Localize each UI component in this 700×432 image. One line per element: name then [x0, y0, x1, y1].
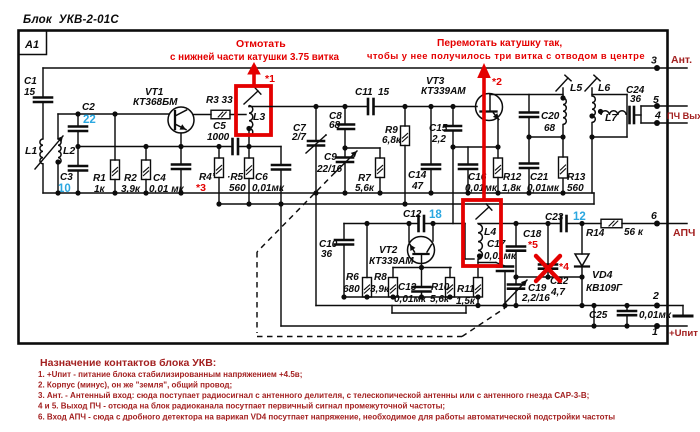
wire: L6 coupling loop — [592, 94, 627, 96]
wire: emitter line y=146.5 from C2 to C6 column — [78, 146, 232, 148]
svg-text:С5: С5 — [213, 121, 226, 132]
wire: VT3 collector to IF tank — [490, 94, 563, 96]
wire: rail end link — [593, 193, 595, 204]
svg-text:С17: С17 — [487, 239, 506, 250]
wire: L3 top to mixer line y=106 — [248, 105, 250, 108]
svg-text:КТ339АМ: КТ339АМ — [421, 86, 466, 97]
wire: y=277 link — [516, 276, 582, 278]
svg-text:22: 22 — [83, 114, 96, 126]
capacitor C12 (series) — [417, 216, 420, 231]
svg-text:R1: R1 — [93, 173, 106, 184]
svg-text:5,6к: 5,6к — [430, 294, 450, 305]
resistor R3 (series) — [211, 110, 230, 119]
node: R2 top junction — [143, 144, 148, 149]
node: R12 ground junction — [495, 190, 500, 195]
wire: to terminal 4 — [641, 122, 687, 124]
svg-text:L3: L3 — [253, 111, 265, 123]
svg-text:2: 2 — [652, 290, 659, 302]
variable inductor arrow across L1/L2 — [35, 136, 63, 169]
wire: C1 top lead from antenna wire — [42, 68, 44, 98]
node: C25 top junction — [624, 303, 629, 308]
node: VT1 emitter junction — [178, 144, 183, 149]
wire: VT2 base lead down — [421, 254, 423, 268]
svg-text:4 и 5. Выход ПЧ - отсюда на бл: 4 и 5. Выход ПЧ - отсюда на блок радиока… — [38, 402, 445, 411]
svg-text:R8: R8 — [374, 272, 387, 283]
wire: C1 bottom to L1 — [42, 102, 44, 139]
node: C18 branch on osc line — [513, 221, 518, 226]
svg-text:68: 68 — [544, 123, 556, 134]
svg-text:С3: С3 — [60, 172, 73, 183]
svg-text:36: 36 — [630, 94, 642, 105]
node: C19 junction on y=277 wire — [513, 274, 518, 279]
resistor R5 — [248, 147, 250, 159]
svg-text:Блок УКВ-2-01С: Блок УКВ-2-01С — [23, 14, 119, 26]
wire: osc line detour down to L4 bottom — [464, 224, 466, 260]
wire: L4 bottom / R11 column — [477, 259, 479, 278]
node: L6 tap dot — [589, 113, 594, 118]
node: C9 ground junction — [342, 190, 347, 195]
node: C15 column junction — [450, 144, 455, 149]
variable capacitor C9 (tuning) — [337, 156, 353, 159]
node: C20 bottom junction — [526, 134, 531, 139]
wire: R3 to L3 — [230, 114, 246, 116]
node: C8 branch — [342, 104, 347, 109]
wire: +Uпит rail y=326 to terminal 1 — [281, 325, 687, 327]
node: R4 +U junction — [216, 201, 221, 206]
node: R9 to +U rail junction — [402, 201, 407, 206]
svg-text:*3: *3 — [196, 182, 206, 194]
wire: mixer line y=106 from L3 to C11 — [249, 106, 368, 108]
svg-text:КТ368БМ: КТ368БМ — [133, 97, 178, 108]
node: terminal 6 dot — [654, 221, 660, 227]
svg-text:АПЧ: АПЧ — [673, 227, 695, 239]
wire: feed link at x=594 between rails — [593, 306, 595, 327]
varicap diode VD4 — [581, 224, 583, 255]
svg-text:47: 47 — [411, 181, 424, 192]
node: C25 bottom junction — [624, 323, 629, 328]
svg-text:3,9к: 3,9к — [370, 284, 390, 295]
node: C7 ground-bus junction — [313, 190, 318, 195]
capacitor C5 1000 (series) — [231, 139, 234, 154]
svg-text:С20: С20 — [541, 111, 560, 122]
wire: L2 top to VT1 base (y=114) — [57, 114, 59, 139]
svg-text:*4: *4 — [559, 261, 569, 273]
wire: L3 bottom lead to emitter line — [248, 131, 250, 147]
node: R5 +U junction — [246, 201, 251, 206]
transistor VT2 (rotated, base bar at bottom) — [408, 237, 435, 264]
capacitor C13 — [421, 268, 423, 288]
wire: base bias line y=267.5 — [393, 267, 451, 269]
node: L5 bottom junction — [560, 134, 565, 139]
wire: lower rail y=305.5 to terminal 2 — [316, 305, 683, 307]
red arrow to L4 note — [482, 77, 486, 200]
inductor L1 (tuned) — [40, 139, 43, 164]
svg-text:С21: С21 — [530, 172, 549, 183]
capacitor C14 — [430, 107, 432, 165]
svg-text:R13: R13 — [567, 172, 586, 183]
capacitor C24 36 (series) — [628, 107, 631, 123]
node: bottom junction dots — [341, 294, 346, 299]
svg-text:3. Ант. - Антенный вход: сюда: 3. Ант. - Антенный вход: сюда поступает … — [38, 391, 589, 400]
capacitor C17 — [478, 262, 496, 264]
svg-text:0,01мк: 0,01мк — [639, 310, 672, 321]
node: L6 bottom junction — [589, 134, 594, 139]
svg-text:R12: R12 — [503, 172, 522, 183]
svg-text:5: 5 — [653, 94, 659, 106]
svg-text:R2: R2 — [124, 173, 137, 184]
capacitor C18 — [515, 224, 517, 247]
variable capacitor C19 (tuning, ganged) — [508, 283, 524, 286]
capacitor C4 (emitter bypass) — [180, 147, 182, 165]
svg-text:15: 15 — [24, 87, 36, 98]
svg-text:R3 33: R3 33 — [206, 95, 233, 106]
svg-text:56 к: 56 к — [624, 227, 644, 238]
svg-text:С14: С14 — [408, 170, 427, 181]
node: VT2 emitter junction on osc line — [406, 221, 411, 226]
wire: C11 to VT3 base — [374, 106, 477, 108]
node: C14 ground junction — [428, 190, 433, 195]
svg-text:С11: С11 — [355, 87, 373, 98]
wire: to terminal 5 — [641, 105, 687, 107]
svg-text:·R5: ·R5 — [227, 172, 244, 183]
svg-text:С1: С1 — [24, 76, 37, 87]
svg-text:3: 3 — [651, 55, 657, 67]
node: junction R1 top — [112, 111, 117, 116]
node: C2/C3 emitter-line junction — [75, 144, 80, 149]
capacitor C20 — [528, 95, 530, 113]
svg-text:L6: L6 — [598, 82, 610, 94]
transistor VT3 (rotated, base bar horizontal) — [476, 94, 503, 121]
svg-text:С6: С6 — [255, 172, 268, 183]
inductor L3 with adjustable core — [249, 106, 253, 136]
svg-text:VT2: VT2 — [379, 245, 398, 256]
svg-text:С9: С9 — [324, 152, 337, 163]
wire: stage bottom wire y=297 — [344, 296, 478, 298]
capacitor C1 — [34, 96, 52, 99]
inductor L7 (loops) — [601, 111, 626, 115]
block border A1 outline — [19, 31, 668, 344]
wire: ground bus y=193 — [43, 192, 594, 194]
node: L3 bottom / R5 junction — [246, 144, 251, 149]
capacitor C15 — [452, 107, 454, 127]
resistor R14 (series) — [601, 219, 622, 228]
wire: VT1 emitter lead down — [180, 133, 182, 147]
resistor R1 — [114, 114, 116, 160]
node: terminal 4 dot — [654, 120, 660, 126]
svg-text:*1: *1 — [265, 73, 275, 85]
node: terminal 5 dot — [654, 103, 660, 109]
svg-text:Перемотать катушку так,: Перемотать катушку так, — [437, 38, 562, 49]
node: terminal 3 junction dot — [654, 65, 660, 71]
inductor L2 — [58, 139, 61, 164]
svg-text:А1: А1 — [24, 39, 39, 51]
wire: emitter line to C15 column — [453, 146, 498, 148]
svg-text:ПЧ Вых: ПЧ Вых — [667, 111, 700, 121]
wire: IF output fork — [635, 114, 642, 116]
svg-text:2,2: 2,2 — [431, 134, 446, 145]
node: C21 ground junction — [526, 190, 531, 195]
svg-text:2/7: 2/7 — [291, 132, 306, 143]
resistor R4 — [218, 147, 220, 159]
red arrow to L3 note — [252, 74, 256, 87]
node: L3 tap dot — [246, 126, 251, 131]
wire: L2 bottom to ground bus — [57, 164, 59, 193]
svg-text:R11: R11 — [457, 284, 475, 295]
svg-text:68: 68 — [329, 120, 341, 131]
resistor R2 — [145, 147, 147, 161]
node: R9 branch — [402, 104, 407, 109]
wire: VT2 collector lead up — [432, 224, 434, 242]
inductor L6 with core — [591, 88, 593, 96]
svg-text:1000: 1000 — [207, 132, 230, 143]
L3 core adjust symbol — [244, 91, 258, 104]
svg-text:*5: *5 — [528, 239, 538, 251]
wire: VT2 emitter lead up — [408, 224, 410, 243]
resistor R12 — [497, 147, 499, 158]
capacitor C6 (supply decoupling) — [280, 147, 282, 166]
svg-text:12: 12 — [573, 211, 586, 223]
node: C22 branch on osc line — [545, 221, 550, 226]
svg-text:С13: С13 — [398, 282, 417, 293]
svg-text:36: 36 — [321, 249, 333, 260]
node: C15 branch — [450, 104, 455, 109]
svg-text:1. +Uпит - питание блока стаби: 1. +Uпит - питание блока стабилизированн… — [38, 370, 302, 379]
node: C8/C9/R7 junction — [342, 145, 347, 150]
red cross over C22 — [536, 256, 560, 281]
resistor R8 — [392, 268, 394, 278]
capacitor C21 — [528, 137, 530, 163]
svg-text:чтобы у нее получилось три вит: чтобы у нее получилось три витка с отвод… — [367, 50, 645, 61]
node: VD4 junction on y=277 wire — [579, 274, 584, 279]
node: VT2 collector junction on osc line — [430, 221, 435, 226]
capacitor C10 — [343, 224, 345, 241]
wire: junction to R7 — [345, 147, 380, 149]
resistor R11 — [474, 278, 483, 298]
svg-text:VD4: VD4 — [592, 269, 613, 281]
svg-text:L1: L1 — [25, 145, 37, 157]
node: VD4 branch on osc line — [579, 221, 584, 226]
trimmer capacitor C7 — [315, 107, 317, 142]
svg-text:6,8к: 6,8к — [382, 135, 402, 146]
svg-text:2. Корпус (минус), он же "земл: 2. Корпус (минус), он же "земля", общий … — [38, 381, 232, 390]
capacitor C22 (crossed out) — [547, 224, 549, 265]
node: R13 ground junction — [560, 190, 565, 195]
node: R4 top junction — [216, 144, 221, 149]
svg-text:+Uпит: +Uпит — [669, 328, 698, 339]
svg-text:С15: С15 — [429, 123, 448, 134]
capacitor C2 — [77, 114, 79, 126]
wire: VT1 collector to R3 — [193, 114, 211, 116]
wire: VT3 emitter lead — [497, 119, 499, 147]
resistor R13 — [559, 157, 568, 178]
wire: antenna line from terminal 3 to C1 (top) — [43, 67, 687, 69]
node: junction C2 top — [75, 111, 80, 116]
svg-text:С4: С4 — [153, 173, 166, 184]
capacitor C8 — [344, 107, 346, 125]
svg-text:6. Вход АПЧ - сюда с дробного: 6. Вход АПЧ - сюда с дробного детектора … — [38, 413, 615, 422]
capacitor C23 (series) — [560, 216, 563, 231]
chassis ground symbol outside border — [682, 306, 684, 315]
node: R7 ground junction — [377, 190, 382, 195]
svg-text:2,2/16: 2,2/16 — [521, 293, 550, 304]
capacitor C3 — [77, 147, 79, 167]
svg-text:R14: R14 — [586, 228, 605, 239]
svg-text:*2: *2 — [492, 76, 502, 88]
inductor L5 with core — [562, 88, 564, 98]
resistor R9 — [404, 107, 406, 127]
node: terminal 1 dot — [654, 323, 660, 329]
svg-text:с нижней части катушки 3.75 ви: с нижней части катушки 3.75 витка — [170, 52, 339, 63]
wire: tank bottom — [529, 136, 563, 138]
capacitor C16 — [467, 147, 469, 165]
svg-text:С2: С2 — [82, 102, 95, 113]
svg-text:L5: L5 — [570, 82, 582, 94]
svg-text:С25: С25 — [589, 310, 608, 321]
A1 designator box — [19, 31, 47, 55]
svg-text:4: 4 — [654, 110, 661, 122]
resistor R6 — [366, 224, 368, 278]
capacitor C11 15 (series) — [367, 99, 370, 114]
svg-text:6: 6 — [651, 210, 657, 222]
svg-text:L2: L2 — [63, 145, 75, 157]
transistor VT1 — [168, 107, 194, 133]
node: bus junction dots left — [55, 190, 60, 195]
node: L7 start dot — [598, 109, 603, 114]
capacitor C25 — [626, 306, 628, 312]
node: terminal 2 dot — [654, 303, 660, 309]
node: C16 ground junction — [465, 190, 470, 195]
node: rail junction dots — [475, 303, 480, 308]
node: C22 bottom junction — [545, 274, 550, 279]
wire: +U feed down to supply rail — [280, 204, 282, 326]
wire: auxiliary return y=313 — [392, 312, 466, 314]
svg-text:L7: L7 — [605, 112, 618, 124]
svg-text:18: 18 — [429, 209, 442, 221]
node: L4 tap dot — [477, 253, 482, 258]
red annotation box around L4 — [463, 200, 501, 266]
wire: oscillator line y=223.5 (C10 to AFC terminal) — [344, 223, 419, 225]
node: C14 branch — [428, 104, 433, 109]
node: L2 winding start dot — [55, 159, 60, 164]
dashed gang line C9 to C19 (mechanical link) — [257, 173, 335, 253]
red annotation box around L3 — [236, 86, 271, 135]
node: C6 +U junction — [278, 201, 283, 206]
resistor R7 — [379, 148, 381, 158]
svg-text:КТ339АМ: КТ339АМ — [369, 256, 414, 267]
node: R6 branch on osc line — [364, 221, 369, 226]
svg-text:КВ109Г: КВ109Г — [586, 283, 623, 294]
svg-text:Отмотать: Отмотать — [236, 38, 286, 50]
svg-text:Ант.: Ант. — [671, 54, 692, 66]
svg-text:Назначение контактов блока УКВ: Назначение контактов блока УКВ: — [40, 357, 216, 369]
svg-text:22/16: 22/16 — [316, 164, 342, 175]
svg-text:1: 1 — [652, 326, 658, 338]
inductor L4 with adjustable core — [476, 207, 489, 219]
svg-text:R10: R10 — [431, 282, 450, 293]
svg-text:L4: L4 — [484, 226, 496, 238]
resistor R10 — [449, 268, 451, 278]
wire: +4.5v rail y=204 — [219, 203, 594, 205]
svg-text:4,7: 4,7 — [550, 287, 565, 298]
node: C7 branch — [313, 104, 318, 109]
wire: L1 bottom to ground bus — [42, 164, 44, 193]
wire: L5 bottom to R13 — [562, 125, 564, 158]
node: emitter/R12/C16 junction — [495, 144, 500, 149]
svg-text:R6: R6 — [346, 272, 359, 283]
svg-text:15: 15 — [378, 87, 390, 98]
svg-text:С12: С12 — [403, 209, 422, 220]
svg-text:680: 680 — [343, 284, 360, 295]
node: base junction — [419, 265, 424, 270]
wire: L6 bottom return to ground bus — [591, 137, 593, 193]
